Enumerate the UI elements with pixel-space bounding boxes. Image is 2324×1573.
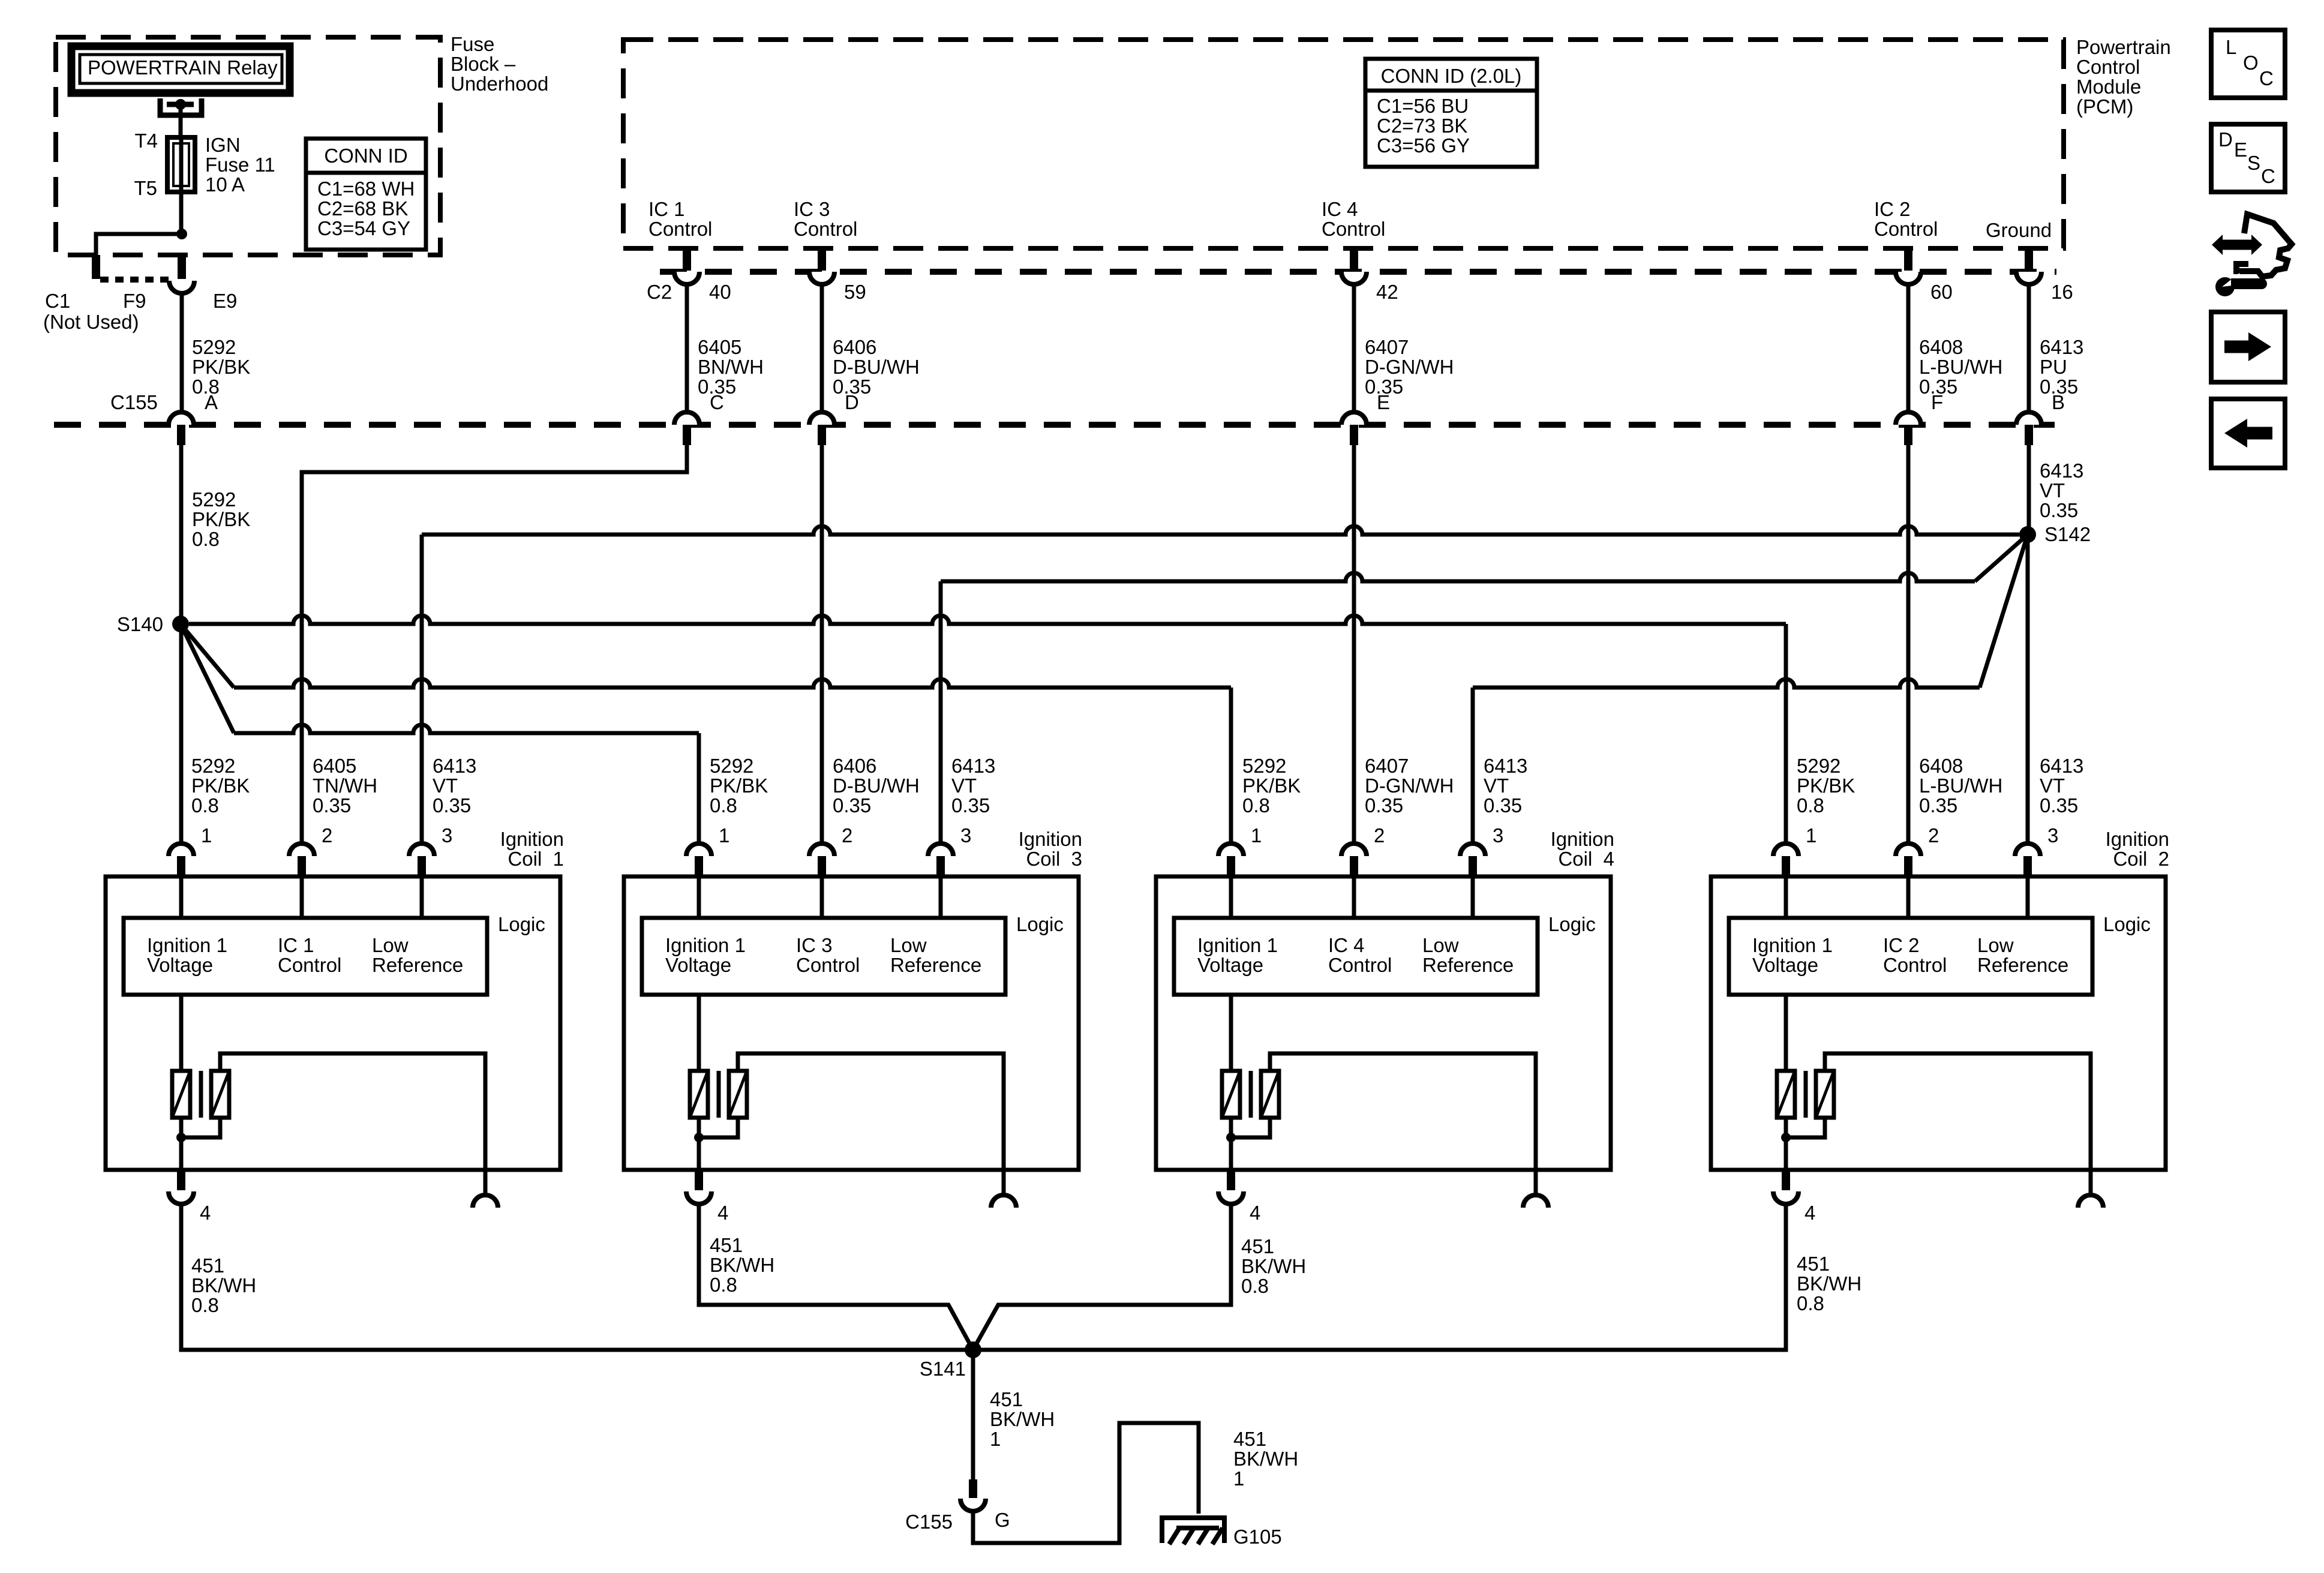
svg-text:0.8: 0.8 xyxy=(710,794,737,816)
coil 4 pin 2 connector xyxy=(1341,843,1367,856)
coil 1 pin 2 internal wire xyxy=(300,876,304,918)
svg-text:6413: 6413 xyxy=(433,755,476,777)
coil 4 pin 1 internal wire xyxy=(1229,876,1233,918)
svg-text:3: 3 xyxy=(442,824,452,846)
connector C155 dotted line xyxy=(54,422,2055,428)
relay K: POWERTRAIN Relay box xyxy=(71,46,290,93)
svg-text:D-BU/WH: D-BU/WH xyxy=(833,356,920,378)
connector C155 D tick xyxy=(818,425,826,445)
svg-text:Control: Control xyxy=(2076,56,2140,78)
svg-text:451: 451 xyxy=(710,1234,743,1256)
connector C2 pin 59 tick xyxy=(818,248,826,271)
svg-text:0.8: 0.8 xyxy=(1242,794,1270,816)
svg-text:PK/BK: PK/BK xyxy=(192,508,250,530)
connector C155 D dome xyxy=(809,412,834,425)
svg-text:L: L xyxy=(2226,36,2236,58)
wire 5292 row S140 to coil3 pin1 xyxy=(181,624,234,733)
connector C2 pin 60 tick xyxy=(1904,248,1912,271)
svg-text:S141: S141 xyxy=(920,1358,966,1380)
wire 6413 VT S142 to coil2 pin3 xyxy=(2026,535,2030,843)
svg-text:0.8: 0.8 xyxy=(191,1294,219,1316)
svg-text:C155: C155 xyxy=(110,391,158,413)
coil 2 pin 2 connector xyxy=(1896,843,1921,856)
icon wrench and part outline xyxy=(2221,240,2253,250)
svg-text:L-BU/WH: L-BU/WH xyxy=(1919,775,2002,797)
coil 1 pin 3 internal wire xyxy=(420,876,424,918)
svg-text:Underhood: Underhood xyxy=(451,73,548,95)
connector E9 cup xyxy=(169,281,194,293)
coil 1 low-ref stub connector xyxy=(473,1195,498,1208)
svg-text:1: 1 xyxy=(1251,824,1262,846)
fuse block - underhood dashed box xyxy=(56,37,440,255)
svg-text:BK/WH: BK/WH xyxy=(1797,1272,1861,1295)
node fuse output junction xyxy=(176,229,187,239)
svg-text:(Not Used): (Not Used) xyxy=(43,311,139,333)
svg-text:0.35: 0.35 xyxy=(433,794,471,816)
svg-text:3: 3 xyxy=(1493,824,1503,846)
connector C2 pin 42 cup xyxy=(1341,272,1367,284)
svg-text:G105: G105 xyxy=(1233,1526,1282,1548)
coil 4 pin 1 connector xyxy=(1218,843,1244,856)
wire 6413 VT row to coil4 pin3 xyxy=(1473,679,1980,688)
svg-text:Logic: Logic xyxy=(1548,913,1596,935)
svg-text:Ignition: Ignition xyxy=(500,828,564,850)
connector C155 A dome xyxy=(169,412,194,425)
wire 451 G to G105 xyxy=(973,1423,1199,1543)
svg-text:BK/WH: BK/WH xyxy=(990,1408,1055,1430)
svg-text:Logic: Logic xyxy=(498,913,545,935)
svg-text:C2: C2 xyxy=(647,281,672,303)
svg-text:451: 451 xyxy=(1797,1253,1830,1275)
svg-text:4: 4 xyxy=(200,1202,211,1224)
coil 4 return wire xyxy=(1270,1053,1536,1170)
svg-text:POWERTRAIN Relay: POWERTRAIN Relay xyxy=(88,56,278,79)
coil 2 return wire xyxy=(1825,1053,2091,1170)
connector C155 B tick xyxy=(2025,425,2033,445)
svg-text:E: E xyxy=(1377,391,1390,413)
wire branch to F9 xyxy=(96,234,182,255)
icon DESC box xyxy=(2211,124,2285,192)
svg-text:Ignition 1: Ignition 1 xyxy=(1197,934,1278,956)
fuse F11: IGN Fuse 11 10A xyxy=(167,137,195,192)
connector id box CONN ID (2.0L) xyxy=(1365,59,1537,167)
svg-text:TN/WH: TN/WH xyxy=(313,775,377,797)
connector C155 G cup xyxy=(960,1499,986,1511)
coil 3 pin 1 connector xyxy=(686,843,711,856)
svg-text:C2=68 BK: C2=68 BK xyxy=(317,197,408,220)
svg-text:Fuse: Fuse xyxy=(451,33,494,55)
svg-text:G: G xyxy=(995,1509,1010,1531)
svg-text:5292: 5292 xyxy=(192,488,236,511)
svg-text:IC 2: IC 2 xyxy=(1874,198,1911,220)
svg-text:A: A xyxy=(205,391,218,413)
svg-text:D: D xyxy=(845,391,859,413)
splice S141 xyxy=(965,1341,981,1358)
svg-text:6408: 6408 xyxy=(1919,336,1963,358)
svg-text:VT: VT xyxy=(2040,479,2065,502)
svg-text:0.35: 0.35 xyxy=(1484,794,1522,816)
svg-text:10 A: 10 A xyxy=(205,173,245,196)
coil 1 core line xyxy=(199,1071,203,1118)
icon back arrow box xyxy=(2211,399,2285,468)
svg-text:6413: 6413 xyxy=(1484,755,1527,777)
wire 6406 D to coil3 pin2 xyxy=(820,445,824,843)
connector C155 E dome xyxy=(1341,412,1367,425)
connector C2 pin 16 cup xyxy=(2016,272,2041,284)
wire 6413 VT row to coil3 pin3 xyxy=(941,573,1975,581)
connector C155 G tick xyxy=(969,1479,977,1498)
svg-text:T4: T4 xyxy=(134,130,158,152)
svg-text:Voltage: Voltage xyxy=(665,954,731,976)
svg-text:IC 4: IC 4 xyxy=(1322,198,1358,220)
coil 3 pin 1 internal wire xyxy=(697,876,701,918)
coil 4 logic box xyxy=(1174,918,1538,995)
connector id box CONN ID (fuse block) xyxy=(306,139,426,250)
svg-text:0.8: 0.8 xyxy=(192,528,220,550)
svg-text:Reference: Reference xyxy=(1422,954,1514,976)
connector C155 C tick xyxy=(683,425,691,445)
svg-text:3: 3 xyxy=(960,824,971,846)
svg-text:1: 1 xyxy=(719,824,729,846)
wire 5292 row S140 to coil4 pin1 xyxy=(181,624,234,688)
svg-text:PK/BK: PK/BK xyxy=(192,356,250,378)
icon LOC box xyxy=(2211,30,2285,98)
splice S142 xyxy=(2019,526,2036,543)
coil 2 primary winding xyxy=(1784,995,1788,1071)
svg-text:IC 3: IC 3 xyxy=(794,198,830,220)
svg-text:PK/BK: PK/BK xyxy=(1242,775,1301,797)
coil 1 pin 2 connector xyxy=(289,843,314,856)
wire 5292 A to S140 xyxy=(179,445,184,620)
ignition coil 1 box xyxy=(106,876,560,1170)
wire 5292 S140 to coil1 pin1 xyxy=(179,628,184,843)
svg-text:Powertrain: Powertrain xyxy=(2076,36,2171,58)
svg-text:Control: Control xyxy=(278,954,341,976)
svg-text:PU: PU xyxy=(2040,356,2067,378)
svg-text:6406: 6406 xyxy=(833,755,876,777)
ignition coil 2 box xyxy=(1711,876,2166,1170)
svg-text:IC 2: IC 2 xyxy=(1883,934,1920,956)
coil 2 pin 2 internal wire xyxy=(1906,876,1911,918)
svg-text:B: B xyxy=(2052,391,2065,413)
wire relay to fuse xyxy=(179,107,183,137)
wire 5292 row S140 to coil2 pin1 xyxy=(189,616,1786,624)
svg-text:Ignition: Ignition xyxy=(1019,828,1082,850)
svg-text:Control: Control xyxy=(1322,218,1385,240)
svg-text:4: 4 xyxy=(1804,1202,1815,1224)
svg-text:Reference: Reference xyxy=(1977,954,2068,976)
wire fuse to branch node xyxy=(179,192,184,234)
svg-text:4: 4 xyxy=(717,1202,728,1224)
coil 3 pin 2 internal wire xyxy=(820,876,824,918)
svg-text:Low: Low xyxy=(372,934,409,956)
svg-text:(PCM): (PCM) xyxy=(2076,95,2133,118)
svg-text:CONN ID: CONN ID xyxy=(324,145,407,167)
svg-text:1: 1 xyxy=(201,824,212,846)
coil 3 return wire xyxy=(738,1053,1004,1170)
svg-text:451: 451 xyxy=(990,1388,1023,1410)
svg-text:IC 1: IC 1 xyxy=(648,198,685,220)
svg-text:Control: Control xyxy=(794,218,857,240)
coil 4 winding junction xyxy=(1226,1133,1236,1142)
connector C155 F tick xyxy=(1904,425,1912,445)
svg-text:L-BU/WH: L-BU/WH xyxy=(1919,356,2002,378)
coil 4 winding to pin4 xyxy=(1229,1118,1233,1170)
wire 451 coil3 to S141 xyxy=(699,1203,973,1350)
wire 451 S141 down xyxy=(971,1350,975,1479)
svg-text:Control: Control xyxy=(1874,218,1938,240)
connector C2 pin 42 tick xyxy=(1350,248,1358,271)
coil 2 pin 3 connector xyxy=(2015,843,2040,856)
svg-text:C1=56 BU: C1=56 BU xyxy=(1377,95,1469,117)
svg-text:BN/WH: BN/WH xyxy=(698,356,764,378)
coil 2 pin 3 internal wire xyxy=(2026,876,2030,918)
coil 1 winding junction xyxy=(176,1133,186,1142)
svg-text:0.35: 0.35 xyxy=(2040,794,2078,816)
svg-text:Coil 4: Coil 4 xyxy=(1558,848,1614,870)
relay contact symbol xyxy=(160,98,202,115)
svg-text:0.35: 0.35 xyxy=(1919,794,1957,816)
wire 6413 VT row to coil1 pin3 xyxy=(422,526,2019,535)
connector C155 B dome xyxy=(2016,412,2041,425)
svg-text:Voltage: Voltage xyxy=(1752,954,1818,976)
svg-text:0.35: 0.35 xyxy=(951,794,990,816)
svg-text:IC 3: IC 3 xyxy=(796,934,833,956)
connector C155 E tick xyxy=(1350,425,1358,445)
svg-text:Coil 3: Coil 3 xyxy=(1026,848,1082,870)
svg-text:BK/WH: BK/WH xyxy=(191,1274,256,1296)
svg-text:IC 1: IC 1 xyxy=(278,934,314,956)
svg-text:451: 451 xyxy=(191,1254,224,1277)
svg-text:451: 451 xyxy=(1233,1428,1266,1450)
svg-text:D-BU/WH: D-BU/WH xyxy=(833,775,920,797)
svg-text:6413: 6413 xyxy=(2040,755,2083,777)
svg-text:6407: 6407 xyxy=(1365,755,1409,777)
svg-text:16: 16 xyxy=(2051,281,2073,303)
svg-text:5292: 5292 xyxy=(1797,755,1840,777)
svg-text:0.35: 0.35 xyxy=(833,794,871,816)
svg-text:Logic: Logic xyxy=(1016,913,1064,935)
svg-text:0.8: 0.8 xyxy=(1797,794,1824,816)
wire 6408 F to coil2 pin2 xyxy=(1906,445,1911,843)
svg-text:Coil 2: Coil 2 xyxy=(2113,848,2169,870)
svg-text:0.8: 0.8 xyxy=(1241,1275,1269,1297)
svg-text:Low: Low xyxy=(890,934,927,956)
svg-text:C1=68 WH: C1=68 WH xyxy=(317,178,415,200)
svg-text:Module: Module xyxy=(2076,76,2141,98)
svg-text:VT: VT xyxy=(433,775,458,797)
coil 1 winding to pin4 xyxy=(179,1118,184,1170)
coil 3 pin 3 internal wire xyxy=(939,876,943,918)
svg-text:O: O xyxy=(2243,52,2259,74)
svg-text:C2=73 BK: C2=73 BK xyxy=(1377,115,1467,137)
coil 3 logic box xyxy=(642,918,1005,995)
svg-text:VT: VT xyxy=(2040,775,2065,797)
connector C2 pin 40 cup xyxy=(674,272,699,284)
coil 1 pin 1 internal wire xyxy=(179,876,184,918)
svg-text:0.35: 0.35 xyxy=(2040,499,2078,521)
svg-text:Ignition: Ignition xyxy=(1551,828,1614,850)
svg-text:F: F xyxy=(1931,391,1943,413)
svg-text:0.35: 0.35 xyxy=(313,794,351,816)
coil 2 logic box xyxy=(1729,918,2092,995)
svg-text:Reference: Reference xyxy=(890,954,981,976)
coil 4 core line xyxy=(1249,1071,1253,1118)
svg-text:Block –: Block – xyxy=(451,53,516,75)
connector C2 pin 16 tick xyxy=(2025,248,2033,271)
svg-text:0.35: 0.35 xyxy=(1365,794,1403,816)
svg-text:C: C xyxy=(2259,67,2274,89)
coil 2 core line xyxy=(1804,1071,1808,1118)
wire 451 coil4 to S141 xyxy=(973,1203,1231,1350)
svg-text:451: 451 xyxy=(1241,1235,1274,1257)
coil 3 pin 2 connector xyxy=(809,843,834,856)
svg-text:VT: VT xyxy=(951,775,977,797)
svg-text:2: 2 xyxy=(1374,824,1385,846)
svg-text:Coil 1: Coil 1 xyxy=(508,848,564,870)
ground G105 symbol xyxy=(1162,1518,1224,1543)
svg-text:60: 60 xyxy=(1930,281,1953,303)
svg-text:5292: 5292 xyxy=(710,755,753,777)
svg-text:5292: 5292 xyxy=(191,755,235,777)
svg-text:0.8: 0.8 xyxy=(710,1274,737,1296)
svg-text:Ignition 1: Ignition 1 xyxy=(147,934,227,956)
coil 3 winding to pin4 xyxy=(697,1118,701,1170)
svg-text:40: 40 xyxy=(709,281,731,303)
svg-text:6413: 6413 xyxy=(951,755,995,777)
svg-text:2: 2 xyxy=(1928,824,1939,846)
coil 4 primary winding xyxy=(1229,995,1233,1071)
svg-text:Ignition 1: Ignition 1 xyxy=(1752,934,1833,956)
connector C155 A tick xyxy=(177,425,185,445)
coil 1 pin 4 connector xyxy=(177,1170,185,1190)
splice S140 xyxy=(172,616,189,632)
svg-text:D-GN/WH: D-GN/WH xyxy=(1365,775,1454,797)
svg-text:6405: 6405 xyxy=(313,755,356,777)
svg-text:T5: T5 xyxy=(134,177,157,199)
ignition coil 4 box xyxy=(1156,876,1611,1170)
connector C2 pin 59 cup xyxy=(809,272,834,284)
svg-text:59: 59 xyxy=(844,281,866,303)
coil 3 primary winding xyxy=(697,995,701,1071)
coil 1 pin 3 connector xyxy=(409,843,434,856)
svg-text:IC 4: IC 4 xyxy=(1328,934,1365,956)
coil 2 low-ref stub connector xyxy=(2078,1195,2103,1208)
svg-text:BK/WH: BK/WH xyxy=(1233,1448,1298,1470)
svg-text:Voltage: Voltage xyxy=(1197,954,1263,976)
svg-text:C3=54 GY: C3=54 GY xyxy=(317,217,410,239)
svg-text:Ground: Ground xyxy=(1986,219,2052,241)
coil 1 pin 1 connector xyxy=(169,843,194,856)
svg-text:D-GN/WH: D-GN/WH xyxy=(1365,356,1454,378)
ignition coil 3 box xyxy=(624,876,1079,1170)
svg-text:C1: C1 xyxy=(45,290,70,312)
svg-text:PK/BK: PK/BK xyxy=(1797,775,1855,797)
svg-text:Control: Control xyxy=(796,954,860,976)
svg-text:S142: S142 xyxy=(2044,523,2091,545)
svg-text:D: D xyxy=(2218,128,2233,151)
svg-text:F9: F9 xyxy=(123,290,146,312)
svg-text:5292: 5292 xyxy=(192,336,236,358)
svg-text:1: 1 xyxy=(1233,1467,1244,1490)
coil 4 pin 4 connector xyxy=(1227,1170,1235,1190)
wires C2 pins down to C155 xyxy=(685,284,689,412)
connector C155 F dome xyxy=(1896,412,1921,425)
svg-text:0.8: 0.8 xyxy=(1797,1292,1824,1314)
wire 6407 E to coil4 pin2 xyxy=(1352,445,1356,843)
svg-text:3: 3 xyxy=(2047,824,2058,846)
wire 451 coil1-coil2 bus xyxy=(181,1203,1786,1350)
svg-text:5292: 5292 xyxy=(1242,755,1286,777)
svg-text:C155: C155 xyxy=(905,1511,953,1533)
svg-text:IGN: IGN xyxy=(205,134,241,156)
svg-text:PK/BK: PK/BK xyxy=(710,775,768,797)
coil 3 winding junction xyxy=(694,1133,704,1142)
coil 2 pin 1 internal wire xyxy=(1784,876,1788,918)
svg-text:PK/BK: PK/BK xyxy=(191,775,250,797)
pin E9 tick xyxy=(178,255,186,279)
svg-text:Ignition 1: Ignition 1 xyxy=(665,934,746,956)
svg-text:6408: 6408 xyxy=(1919,755,1963,777)
svg-text:Low: Low xyxy=(1977,934,2014,956)
svg-text:Control: Control xyxy=(648,218,712,240)
svg-text:E: E xyxy=(2234,139,2247,161)
connector C2 pin 60 cup xyxy=(1896,272,1921,284)
svg-text:Fuse 11: Fuse 11 xyxy=(205,154,275,176)
svg-text:6413: 6413 xyxy=(2040,460,2083,482)
coil 3 core line xyxy=(717,1071,721,1118)
coil 2 winding to pin4 xyxy=(1784,1118,1788,1170)
wire 5292 E9 to C155-A xyxy=(180,293,184,412)
svg-text:VT: VT xyxy=(1484,775,1509,797)
coil 2 winding junction xyxy=(1781,1133,1791,1142)
icon forward arrow box xyxy=(2211,312,2285,382)
svg-text:E9: E9 xyxy=(213,290,237,312)
coil 3 pin 4 connector xyxy=(695,1170,703,1190)
svg-text:0.8: 0.8 xyxy=(191,794,219,816)
svg-text:S140: S140 xyxy=(117,613,163,635)
coil 1 logic box xyxy=(124,918,487,995)
coil 4 low-ref stub connector xyxy=(1523,1195,1548,1208)
wire 6405 C jog to coil1 pin2 xyxy=(302,445,687,843)
svg-text:6406: 6406 xyxy=(833,336,876,358)
pin F9 tick xyxy=(92,255,100,279)
coil 3 pin 3 connector xyxy=(928,843,953,856)
coil 4 pin 3 connector xyxy=(1460,843,1485,856)
svg-text:C3=56 GY: C3=56 GY xyxy=(1377,134,1470,157)
svg-text:1: 1 xyxy=(1806,824,1816,846)
coil 1 return wire xyxy=(220,1053,485,1170)
coil 3 low-ref stub connector xyxy=(991,1195,1016,1208)
svg-text:6413: 6413 xyxy=(2040,336,2083,358)
svg-text:2: 2 xyxy=(322,824,332,846)
svg-text:2: 2 xyxy=(842,824,852,846)
wire dashed not-used F9 to E9 xyxy=(100,277,169,283)
svg-text:S: S xyxy=(2247,152,2260,174)
svg-text:4: 4 xyxy=(1250,1202,1260,1224)
svg-text:Low: Low xyxy=(1422,934,1459,956)
svg-text:BK/WH: BK/WH xyxy=(1241,1255,1306,1277)
svg-text:1: 1 xyxy=(990,1428,1001,1450)
svg-text:Control: Control xyxy=(1883,954,1947,976)
svg-text:Reference: Reference xyxy=(372,954,463,976)
svg-text:CONN ID (2.0L): CONN ID (2.0L) xyxy=(1381,65,1522,87)
svg-text:Logic: Logic xyxy=(2103,913,2151,935)
svg-text:Voltage: Voltage xyxy=(147,954,213,976)
connector C155 C dome xyxy=(674,412,699,425)
svg-text:6407: 6407 xyxy=(1365,336,1409,358)
svg-text:C: C xyxy=(710,391,724,413)
